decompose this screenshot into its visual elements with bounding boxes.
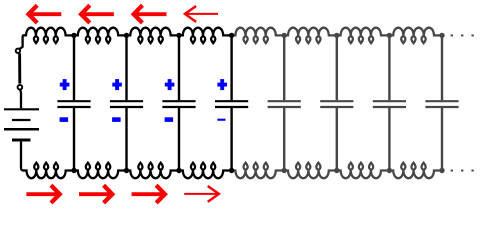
node N2 (top junction) [124, 33, 129, 38]
inductor L13 (bottom rail) [232, 163, 285, 179]
node N15 (bottom junction) [387, 168, 392, 173]
inductor L1 (top rail) [23, 28, 74, 44]
inductor L16 (bottom rail) [389, 163, 442, 179]
minus sign (charge on C3 bottom plate) [165, 117, 174, 122]
arrow (current direction, bottom section 4, rightward) [184, 186, 219, 202]
arrow (current direction, bottom section 3, rightward) [132, 185, 165, 203]
switch S1 (open knife switch) [16, 35, 27, 89]
inductor L8 (top rail) [389, 28, 442, 44]
minus sign (charge on C4 bottom plate) [217, 119, 225, 121]
inductor L6 (top rail) [284, 28, 337, 44]
arrow (current direction, bottom section 1, rightward) [26, 185, 59, 203]
node N12 (bottom junction) [229, 168, 234, 173]
inductor L12 (bottom rail) [179, 163, 232, 179]
capacitor C1 [57, 35, 90, 170]
inductor L14 (bottom rail) [284, 163, 337, 179]
node N5 (top junction) [282, 33, 287, 38]
inductor L15 (bottom rail) [337, 163, 390, 179]
node N9 (bottom junction) [71, 168, 76, 173]
battery B1 [4, 90, 39, 171]
inductor L2 (top rail) [74, 28, 127, 44]
plus sign (charge on C2 top plate) [112, 79, 122, 90]
capacitor C5 [268, 35, 301, 170]
node N13 (bottom junction) [282, 168, 287, 173]
capacitor C4 [215, 35, 248, 170]
node N7 (top junction) [387, 33, 392, 38]
plus sign (charge on C3 top plate) [165, 79, 175, 90]
node N4 (top junction) [229, 33, 234, 38]
capacitor C8 [425, 35, 458, 170]
ellipsis (line continues, bottom rail) [451, 170, 474, 172]
node N3 (top junction) [176, 33, 181, 38]
inductor L9 (bottom rail) [23, 163, 74, 179]
inductor L3 (top rail) [127, 28, 180, 44]
arrow (current direction, top section 1, leftward) [29, 5, 62, 23]
inductor L11 (bottom rail) [127, 163, 180, 179]
capacitor C7 [373, 35, 406, 170]
node N11 (bottom junction) [176, 168, 181, 173]
inductor L10 (bottom rail) [74, 163, 127, 179]
minus sign (charge on C1 bottom plate) [60, 117, 69, 122]
node N16 (bottom junction) [439, 168, 444, 173]
arrow (current direction, top section 4, leftward) [185, 6, 218, 22]
node N1 (top junction) [71, 33, 76, 38]
capacitor C3 [162, 35, 195, 170]
inductor L4 (top rail) [179, 28, 232, 44]
capacitor C2 [110, 35, 143, 170]
node N6 (top junction) [334, 33, 339, 38]
ellipsis (line continues, top rail) [451, 35, 474, 37]
node N14 (bottom junction) [334, 168, 339, 173]
arrow (current direction, bottom section 2, rightward) [79, 185, 112, 203]
capacitor C6 [320, 35, 353, 170]
plus sign (charge on C4 top plate) [217, 79, 227, 90]
plus sign (charge on C1 top plate) [60, 79, 70, 90]
arrow (current direction, top section 2, leftward) [81, 5, 114, 23]
node N10 (bottom junction) [124, 168, 129, 173]
inductor L7 (top rail) [337, 28, 390, 44]
arrow (current direction, top section 3, leftward) [134, 5, 167, 23]
inductor L5 (top rail) [232, 28, 285, 44]
minus sign (charge on C2 bottom plate) [112, 117, 121, 122]
node N8 (top junction) [439, 33, 444, 38]
